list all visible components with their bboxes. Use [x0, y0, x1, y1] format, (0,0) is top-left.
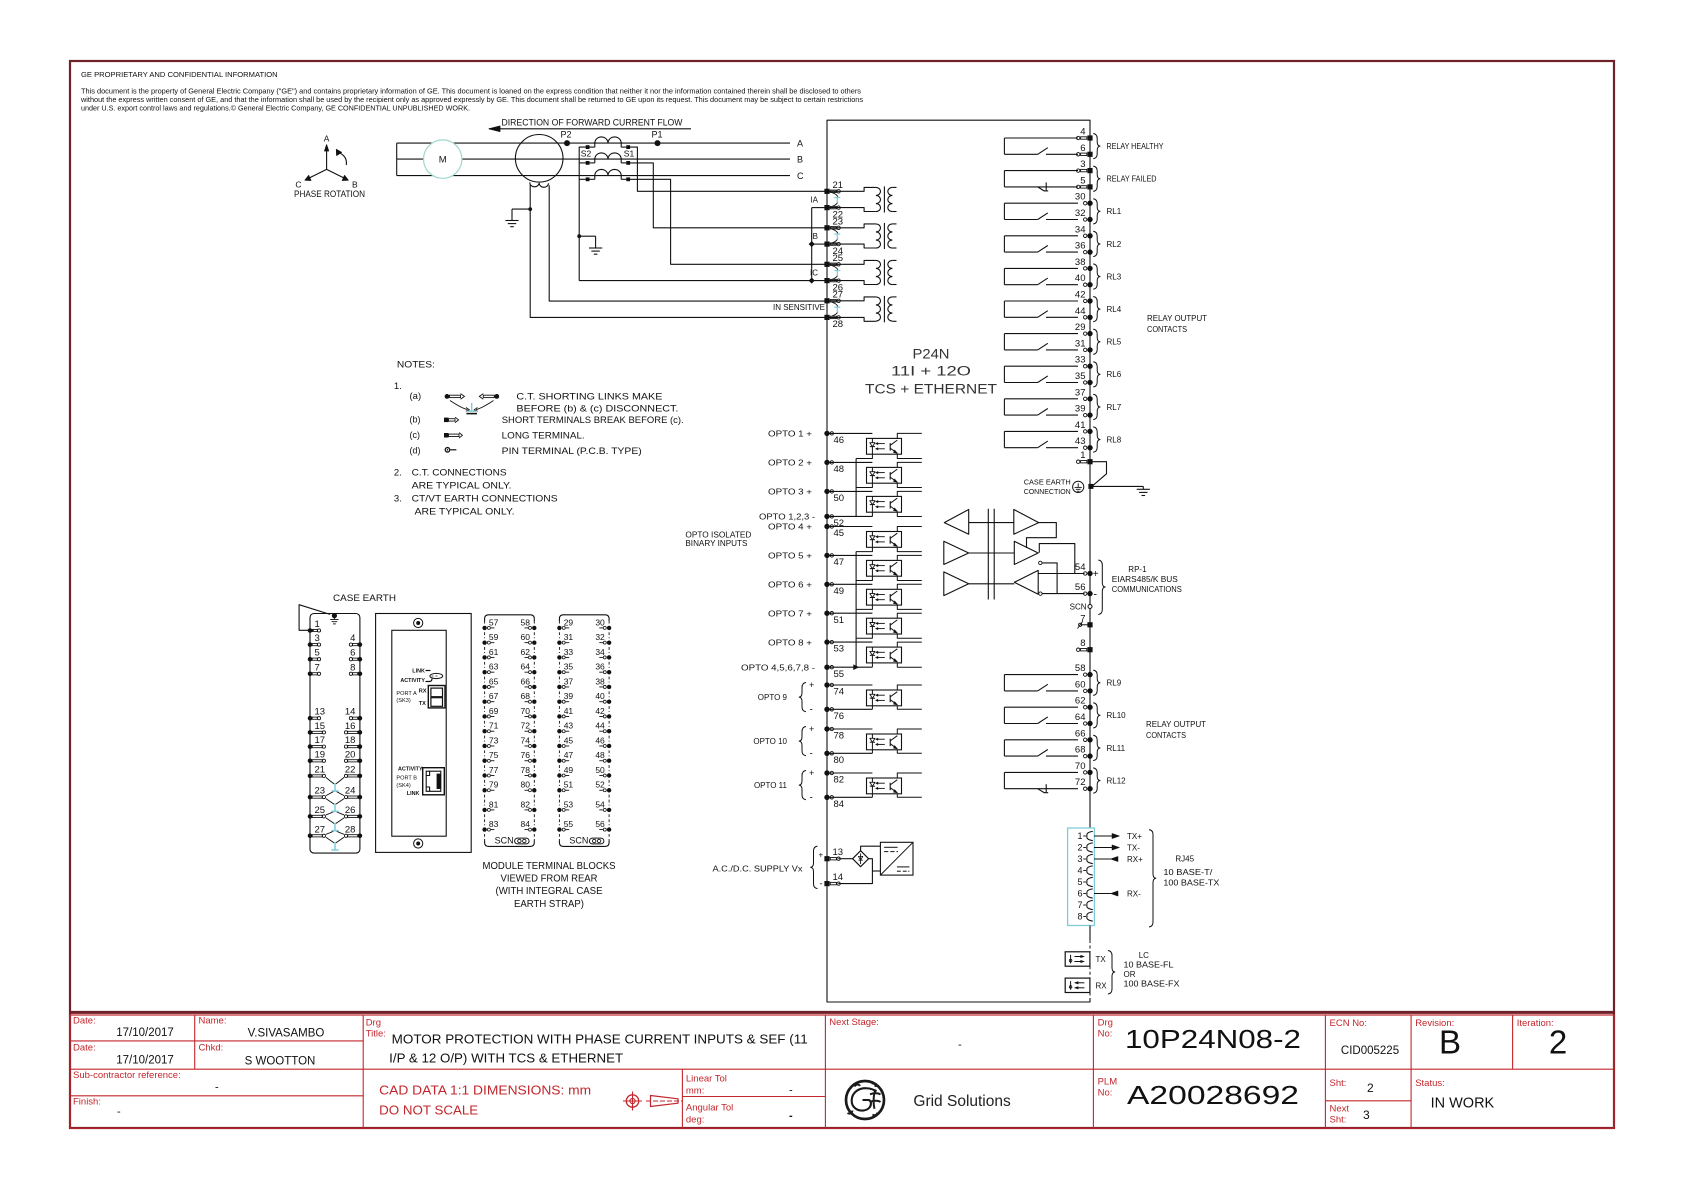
block1 terminal 8	[358, 672, 363, 677]
CT make-before-break link	[832, 193, 838, 197]
terminal block 4 terminal 50	[607, 773, 611, 777]
optocoupler	[867, 734, 902, 750]
svg-text:8: 8	[1080, 638, 1085, 649]
svg-text:ECN No:: ECN No:	[1330, 1018, 1367, 1029]
svg-text:PIN TERMINAL (P.C.B. TYPE): PIN TERMINAL (P.C.B. TYPE)	[502, 446, 642, 457]
title block row lines	[70, 1040, 363, 1042]
svg-text:2: 2	[1549, 1024, 1567, 1061]
svg-text:58: 58	[1075, 663, 1086, 674]
terminal 56	[1087, 591, 1092, 596]
svg-text:S2: S2	[581, 148, 592, 158]
svg-text:38: 38	[595, 676, 605, 686]
svg-text:RELAY FAILED: RELAY FAILED	[1107, 175, 1157, 184]
terminal 38	[1087, 266, 1092, 271]
emitter stub	[897, 794, 922, 798]
svg-text:IA: IA	[810, 195, 818, 204]
svg-text:47: 47	[834, 557, 845, 568]
terminal block 4 terminal 44	[607, 729, 611, 733]
svg-text:RJ45: RJ45	[1175, 855, 1194, 864]
opto input terminal 51 wire	[827, 612, 872, 614]
svg-text:RX+: RX+	[1127, 855, 1143, 864]
relay contact RL12	[1004, 771, 1078, 773]
block1 terminal 20	[358, 759, 363, 764]
earth tap junction	[528, 207, 532, 211]
svg-text:30: 30	[1075, 192, 1086, 203]
terminal block 4 terminal 37	[557, 685, 561, 689]
terminal 70	[1087, 770, 1092, 775]
svg-text:Status:: Status:	[1415, 1078, 1445, 1089]
svg-text:P24N: P24N	[913, 347, 950, 362]
svg-text:77: 77	[489, 765, 499, 775]
terminal 46	[824, 431, 829, 436]
svg-text:VIEWED FROM REAR: VIEWED FROM REAR	[501, 874, 598, 885]
svg-text:10 BASE-FL: 10 BASE-FL	[1124, 961, 1175, 970]
terminal 40	[1087, 282, 1092, 287]
svg-text:(a): (a)	[410, 391, 422, 402]
S2 terminal phase B	[586, 161, 590, 165]
svg-text:MOTOR PROTECTION WITH PHASE CU: MOTOR PROTECTION WITH PHASE CURRENT INPU…	[392, 1033, 808, 1047]
terminal 54	[1087, 571, 1092, 576]
comms module inner panel	[392, 630, 446, 836]
svg-text:56: 56	[1075, 582, 1086, 593]
svg-text:NOTES:: NOTES:	[397, 360, 435, 371]
terminal 6	[1087, 152, 1092, 157]
svg-text:55: 55	[834, 669, 845, 680]
GE monogram logo	[846, 1081, 884, 1119]
RS485 enable bubble T5	[1039, 561, 1042, 564]
terminal block 3 terminal 73	[482, 744, 486, 748]
svg-text:100 BASE-FX: 100 BASE-FX	[1124, 980, 1181, 989]
svg-text:78: 78	[834, 731, 845, 742]
svg-text:8: 8	[1077, 912, 1082, 922]
S1 terminal phase C	[626, 177, 630, 181]
svg-text:IN WORK: IN WORK	[1431, 1096, 1495, 1112]
CT make-before-break link	[832, 266, 838, 270]
terminal block 3 terminal 76	[532, 759, 536, 763]
svg-text:80: 80	[834, 755, 845, 766]
svg-text:80: 80	[521, 780, 531, 790]
SEF secondary wire right	[549, 185, 827, 301]
svg-text:CONNECTION: CONNECTION	[1024, 487, 1071, 496]
svg-text:25: 25	[833, 253, 844, 264]
svg-text:3: 3	[315, 633, 320, 644]
opto input terminal 50 wire	[827, 490, 872, 492]
case earth dot	[332, 613, 337, 618]
svg-text:43: 43	[1075, 436, 1086, 447]
RS485 barrier wires	[969, 522, 1014, 524]
svg-text:4: 4	[1077, 866, 1082, 876]
brace RL1	[1093, 199, 1100, 224]
fibre RX box	[1065, 978, 1090, 992]
terminal 5	[1087, 184, 1092, 189]
svg-text:BEFORE (b) & (c) DISCONNECT.: BEFORE (b) & (c) DISCONNECT.	[516, 404, 678, 415]
terminal 26	[824, 278, 829, 283]
svg-text:6: 6	[1080, 143, 1085, 154]
terminal block 4 terminal 33	[557, 655, 561, 659]
brace RL3	[1093, 264, 1100, 289]
svg-text:68: 68	[521, 691, 531, 701]
svg-text:OPTO 5 +: OPTO 5 +	[768, 552, 812, 561]
svg-text:68: 68	[1075, 745, 1086, 756]
svg-text:B: B	[1439, 1024, 1461, 1061]
terminal block 4 terminal 32	[607, 640, 611, 644]
svg-text:IB: IB	[810, 232, 818, 241]
note (a) symbol	[445, 394, 450, 399]
terminal block 3 terminal 59	[482, 640, 486, 644]
svg-text:51: 51	[834, 615, 845, 626]
svg-text:CONTACTS: CONTACTS	[1146, 731, 1186, 740]
svg-text:24: 24	[345, 786, 356, 797]
bridge to psu wires	[861, 846, 881, 851]
svg-text:SCN: SCN	[569, 835, 588, 845]
terminal 42	[1087, 298, 1092, 303]
terminal 66	[1087, 737, 1092, 742]
terminal block 3 terminal 71	[482, 729, 486, 733]
RS485 output loop	[1039, 544, 1075, 574]
cathode return	[856, 483, 872, 487]
svg-text:OPTO 3 +: OPTO 3 +	[768, 488, 812, 497]
terminal 14	[824, 881, 829, 886]
phase rotation symbol	[326, 150, 328, 170]
case earth block earth glyph	[333, 616, 335, 620]
svg-text:84: 84	[521, 819, 531, 829]
cathode return	[856, 634, 872, 638]
relay contact RL8	[1004, 430, 1078, 432]
terminal block 3 terminal 84	[532, 827, 536, 831]
svg-text:PORT A: PORT A	[396, 691, 417, 697]
core balance CT circle	[515, 135, 563, 183]
P1 dot	[655, 140, 661, 146]
opto input terminal 49 wire	[827, 583, 872, 585]
emitter stub	[897, 547, 922, 551]
cathode return	[856, 605, 872, 609]
svg-text:10P24N08-2: 10P24N08-2	[1125, 1026, 1301, 1054]
svg-text:C: C	[797, 171, 804, 181]
block1 terminal 26	[358, 814, 363, 819]
opto input terminal 46 wire	[827, 432, 872, 434]
opto input OPTO 9 plus wire	[827, 684, 872, 686]
svg-text:OPTO 8 +: OPTO 8 +	[768, 638, 812, 647]
svg-text:79: 79	[489, 780, 499, 790]
phase bus A	[397, 142, 790, 144]
module bottom screw	[414, 839, 423, 848]
svg-text:TX+: TX+	[1127, 832, 1142, 841]
RJ45 signal RX-	[1094, 893, 1111, 895]
opto bus 4-8	[855, 552, 857, 668]
svg-text:A20028692: A20028692	[1127, 1082, 1299, 1110]
terminal block 4 terminal 51	[557, 788, 561, 792]
svg-text:41: 41	[1075, 420, 1086, 431]
svg-text:-: -	[789, 1085, 793, 1097]
svg-text:RX: RX	[1096, 982, 1108, 991]
terminal 53	[824, 639, 829, 644]
svg-text:Chkd:: Chkd:	[199, 1043, 224, 1054]
svg-text:25: 25	[315, 805, 326, 816]
svg-text:CT/VT EARTH CONNECTIONS: CT/VT EARTH CONNECTIONS	[412, 494, 558, 505]
earth symbol 3	[1142, 486, 1144, 489]
svg-text:82: 82	[521, 799, 531, 809]
terminal 49	[824, 582, 829, 587]
terminal block 3 terminal 80	[532, 788, 536, 792]
emitter stub	[897, 706, 922, 710]
terminal 82	[824, 770, 829, 775]
junction at 24	[809, 241, 815, 247]
cathode to minus wire	[871, 794, 873, 798]
brace RS485	[1098, 560, 1105, 615]
svg-text:IN SENSITIVE: IN SENSITIVE	[773, 303, 825, 312]
svg-text:OPTO 1 +: OPTO 1 +	[768, 430, 812, 439]
svg-text:35: 35	[564, 662, 574, 672]
terminal block 1 outline	[310, 614, 360, 854]
terminal block 4 terminal 40	[607, 700, 611, 704]
svg-text:B: B	[797, 154, 803, 164]
svg-text:Linear Tol: Linear Tol	[686, 1074, 727, 1085]
svg-text:72: 72	[1075, 777, 1086, 788]
optocoupler	[867, 618, 902, 634]
svg-text:TX: TX	[419, 701, 426, 707]
block1 CT shorting link	[326, 799, 334, 805]
svg-text:6: 6	[1077, 889, 1082, 899]
svg-text:PLM: PLM	[1098, 1077, 1118, 1088]
svg-text:Sub-contractor reference:: Sub-contractor reference:	[73, 1070, 181, 1081]
brace RL4	[1093, 297, 1100, 322]
svg-text:Date:: Date:	[73, 1043, 96, 1054]
emitter stub	[897, 750, 922, 754]
svg-text:28: 28	[833, 319, 844, 330]
svg-text:RELAY OUTPUT: RELAY OUTPUT	[1147, 314, 1207, 323]
svg-text:18: 18	[345, 735, 356, 746]
terminal 51	[824, 611, 829, 616]
primary stubs B	[594, 159, 596, 163]
terminal 55	[824, 665, 829, 670]
relay box outline	[827, 120, 1090, 828]
relay contact RL3	[1004, 267, 1078, 269]
terminal block 4 terminal 47	[557, 759, 561, 763]
motor M	[424, 140, 462, 178]
svg-text:B: B	[352, 180, 358, 190]
terminal 72	[1087, 786, 1092, 791]
relay contact RL6	[1004, 365, 1078, 367]
RJ45 signal TX+	[1094, 835, 1112, 837]
svg-text:52: 52	[595, 780, 605, 790]
svg-text:76: 76	[521, 750, 531, 760]
svg-text:16: 16	[345, 721, 356, 732]
svg-text:33: 33	[564, 647, 574, 657]
svg-text:RL8: RL8	[1107, 435, 1122, 444]
emitter stub	[897, 576, 922, 580]
svg-text:A: A	[797, 138, 803, 148]
terminal 36	[1087, 249, 1092, 254]
terminal block 3 terminal 72	[532, 729, 536, 733]
terminal 4	[1087, 135, 1092, 140]
svg-text:DIRECTION OF FORWARD CURREN: DIRECTION OF FORWARD CURRENT FLOW	[502, 117, 683, 127]
terminal block 4 terminal 29	[557, 626, 561, 630]
terminal 25	[824, 262, 829, 267]
svg-text:Name:: Name:	[199, 1016, 227, 1027]
svg-text:OPTO 1,2,3 -: OPTO 1,2,3 -	[759, 513, 815, 522]
svg-text:7: 7	[315, 662, 320, 673]
svg-text:40: 40	[1075, 273, 1086, 284]
block1 terminal 15	[308, 730, 313, 735]
svg-text:55: 55	[564, 819, 574, 829]
terminal block 4 terminal 41	[557, 714, 561, 718]
svg-text:TX: TX	[1096, 955, 1107, 964]
svg-text:44: 44	[595, 721, 605, 731]
svg-text:RL9: RL9	[1107, 679, 1122, 688]
svg-text:4: 4	[1080, 127, 1085, 138]
terminal 48	[824, 460, 829, 465]
svg-text:OPTO 10: OPTO 10	[753, 737, 787, 746]
svg-text:P1: P1	[651, 129, 662, 139]
phase bus B	[397, 158, 790, 160]
S2 common chain	[579, 147, 587, 281]
svg-text:4: 4	[350, 633, 355, 644]
svg-text:Sht:: Sht:	[1330, 1115, 1347, 1126]
terminal 52 common wire	[827, 515, 872, 517]
phase rotation curved arrow	[339, 153, 347, 166]
svg-text:53: 53	[564, 799, 574, 809]
svg-text:48: 48	[595, 750, 605, 760]
svg-text:Grid Solutions: Grid Solutions	[913, 1093, 1011, 1110]
terminal block 4 terminal 30	[607, 626, 611, 630]
svg-text:RX-: RX-	[1127, 890, 1141, 899]
block1 CT shorting link	[326, 777, 334, 784]
svg-text:64: 64	[1075, 712, 1086, 723]
terminal block 3 terminal 67	[482, 700, 486, 704]
svg-text:32: 32	[1075, 208, 1086, 219]
block1 terminal 25	[308, 814, 313, 819]
svg-text:MODULE TERMINAL BLOCKS: MODULE TERMINAL BLOCKS	[483, 861, 616, 872]
svg-text:74: 74	[834, 687, 845, 698]
wire to terminal 54	[1038, 573, 1084, 575]
cathode return	[871, 663, 873, 667]
svg-text:61: 61	[489, 647, 499, 657]
svg-text:45: 45	[834, 528, 845, 539]
relay contact RL5	[1004, 333, 1078, 335]
svg-text:40: 40	[595, 691, 605, 701]
block1 CT shorting link	[326, 837, 334, 843]
svg-text:LINK: LINK	[412, 669, 425, 675]
optocoupler	[867, 532, 902, 548]
svg-text:66: 66	[521, 676, 531, 686]
svg-text:A: A	[324, 134, 330, 144]
svg-text:-: -	[789, 1110, 793, 1122]
svg-text:46: 46	[595, 735, 605, 745]
svg-text:RL2: RL2	[1107, 240, 1122, 249]
block1 CT shorting link	[326, 818, 334, 824]
svg-text:36: 36	[595, 662, 605, 672]
svg-text:42: 42	[595, 706, 605, 716]
optocoupler	[867, 690, 902, 706]
S2 terminal phase C	[586, 177, 590, 181]
svg-text:RL10: RL10	[1107, 711, 1127, 720]
svg-text:83: 83	[489, 819, 499, 829]
svg-text:RL6: RL6	[1107, 370, 1122, 379]
optocoupler	[867, 560, 902, 576]
terminal block 3 terminal 69	[482, 714, 486, 718]
S1-B wire to terminal 23	[628, 163, 827, 228]
cathode to minus wire	[871, 706, 873, 710]
svg-text:51: 51	[564, 780, 574, 790]
svg-text:(c): (c)	[410, 430, 421, 440]
svg-text:35: 35	[1075, 371, 1086, 382]
relay contact RL4	[1004, 300, 1078, 302]
terminal 1	[1087, 459, 1092, 464]
svg-text:LINK: LINK	[407, 791, 420, 797]
svg-text:6: 6	[350, 648, 355, 659]
OPTO 11 minus wire	[827, 796, 872, 798]
svg-text:+: +	[819, 851, 824, 860]
primary stubs C	[594, 176, 596, 180]
svg-text:+: +	[1093, 569, 1099, 580]
opto input terminal 45 wire	[827, 526, 872, 528]
terminal 58	[1087, 672, 1092, 677]
svg-text:66: 66	[1075, 728, 1086, 739]
primary stubs A	[594, 143, 596, 147]
block1 terminal 14	[358, 716, 363, 721]
svg-text:ARE TYPICAL ONLY.: ARE TYPICAL ONLY.	[415, 507, 515, 518]
emitter stub	[897, 605, 922, 609]
svg-text:14: 14	[345, 707, 356, 718]
case earth wire	[1090, 462, 1107, 486]
svg-text:7: 7	[1077, 900, 1082, 910]
opto input terminal 48 wire	[827, 461, 872, 463]
svg-text:64: 64	[521, 662, 531, 672]
terminal block 3 terminal 77	[482, 773, 486, 777]
earth symbol 1	[511, 209, 513, 220]
svg-text:CASE EARTH: CASE EARTH	[1024, 477, 1071, 486]
svg-text:21: 21	[315, 764, 326, 775]
svg-text:76: 76	[834, 711, 845, 722]
svg-text:23: 23	[315, 786, 326, 797]
svg-text:(d): (d)	[410, 446, 421, 456]
terminal block 4 outline	[559, 615, 609, 847]
title block outline	[69, 1011, 1615, 1014]
svg-text:39: 39	[564, 691, 574, 701]
svg-text:7: 7	[1080, 613, 1085, 624]
S1-A wire to terminal 21	[628, 147, 827, 191]
block1 terminal 6	[358, 657, 363, 662]
terminal 80	[824, 751, 829, 756]
emitter stub	[897, 483, 922, 487]
port A fibre connector	[428, 686, 445, 708]
RS485 isolation barrier	[987, 509, 989, 600]
svg-text:OPTO 11: OPTO 11	[754, 781, 788, 790]
svg-text:67: 67	[489, 691, 499, 701]
block1 terminal 17	[308, 744, 313, 749]
svg-text:21: 21	[833, 180, 844, 191]
terminal 47	[824, 553, 829, 558]
svg-text:5: 5	[315, 648, 320, 659]
svg-text:S1: S1	[624, 148, 635, 158]
svg-text:60: 60	[521, 632, 531, 642]
svg-text:84: 84	[834, 799, 845, 810]
svg-text:No:: No:	[1098, 1088, 1113, 1099]
svg-text:Angular Tol: Angular Tol	[686, 1103, 733, 1114]
terminal 35	[1087, 380, 1092, 385]
block1 terminal 23	[308, 795, 313, 800]
svg-text:71: 71	[489, 721, 499, 731]
terminal block 3 terminal 74	[532, 744, 536, 748]
cathode return	[871, 512, 873, 516]
emitter stub	[897, 663, 922, 667]
brace RL7	[1093, 394, 1100, 419]
brace RL2	[1093, 231, 1100, 256]
terminal 50	[824, 489, 829, 494]
svg-text:47: 47	[564, 750, 574, 760]
svg-text:62: 62	[1075, 696, 1086, 707]
line CT phase C	[595, 169, 621, 175]
